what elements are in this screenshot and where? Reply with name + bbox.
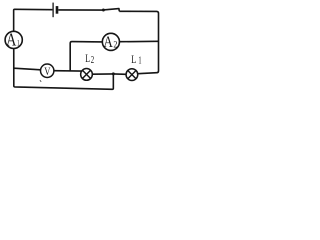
svg-text:2: 2 (91, 54, 94, 66)
svg-text:2: 2 (113, 39, 117, 49)
svg-text:L: L (131, 54, 136, 66)
svg-text:A: A (103, 32, 113, 51)
svg-text:1: 1 (17, 38, 20, 47)
svg-text:A: A (6, 30, 16, 50)
svg-text:V: V (44, 64, 50, 78)
svg-text:1: 1 (138, 54, 141, 66)
svg-text:L: L (85, 53, 90, 65)
